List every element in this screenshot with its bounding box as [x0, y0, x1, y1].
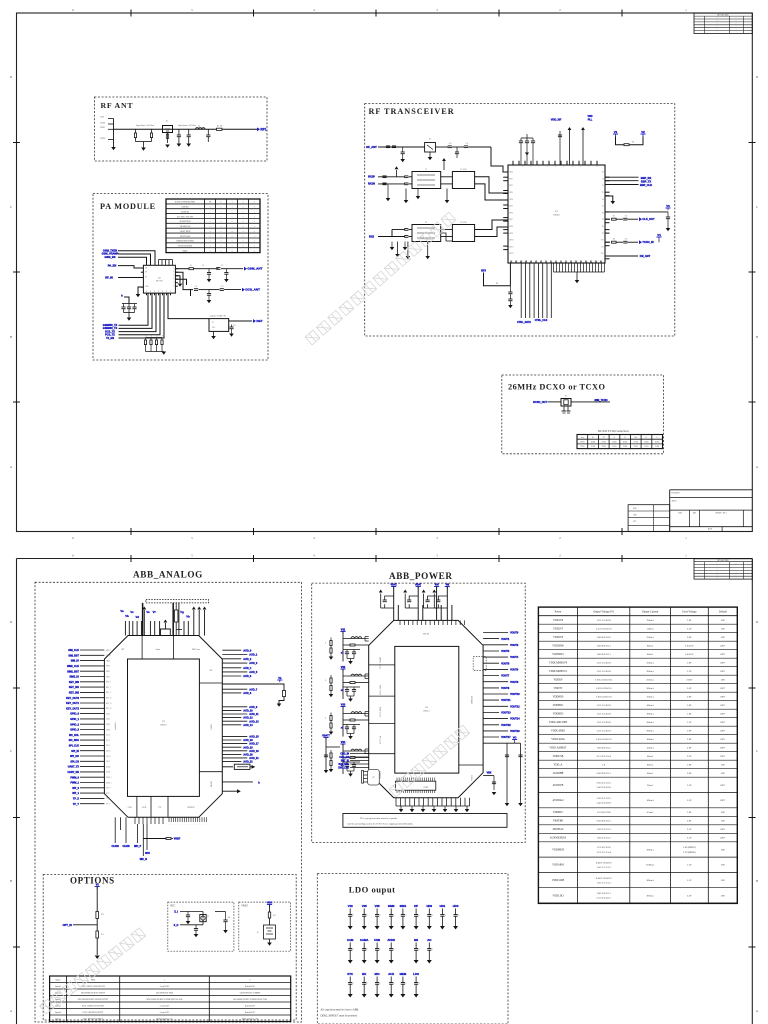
crystal right label [571, 401, 610, 403]
svg-text:AVDDAO: AVDDAO [553, 799, 564, 802]
svg-text:1.8V(DDR1): 1.8V(DDR1) [683, 846, 696, 849]
svg-text:1.2/1.5/1.8/2.8: 1.2/1.5/1.8/2.8 [596, 670, 611, 673]
svg-text:P0: P0 [602, 172, 604, 174]
svg-text:U2: U2 [158, 278, 161, 280]
svg-text:RFI7: RFI7 [510, 219, 513, 221]
svg-text:C1: C1 [613, 437, 615, 439]
svg-text:CTRL_CLK: CTRL_CLK [535, 319, 548, 322]
svg-text:0.65/0.7/0.8/0.9: 0.65/0.7/0.8/0.9 [596, 877, 612, 880]
svg-text:DCDC ADJUST DVS OUTPUT: DCDC ADJUST DVS OUTPUT [82, 1004, 104, 1007]
svg-text:60mA: 60mA [647, 772, 653, 775]
VBAT branch flag [267, 904, 272, 906]
battery connector block [368, 769, 380, 785]
svg-text:~~~: ~~~ [716, 575, 719, 577]
svg-text:TP_Y: TP_Y [73, 803, 79, 806]
svg-text:AUD_16: AUD_16 [243, 739, 253, 742]
svg-text:1.8V: 1.8V [687, 713, 692, 716]
svg-text:AUD_5: AUD_5 [249, 671, 258, 674]
svg-text:VDDMEM: VDDMEM [552, 848, 565, 851]
right row with series parts to connector row1 [605, 218, 610, 220]
svg-text:Vf: Vf [153, 610, 156, 614]
svg-text:AUD_17: AUD_17 [249, 743, 259, 746]
sheet1 watermark [305, 212, 456, 345]
svg-text:GSM_ANT: GSM_ANT [247, 267, 262, 271]
svg-text:CHG_IN: CHG_IN [340, 754, 349, 756]
svg-text:1.9/2.1/2.3/2.5: 1.9/2.1/2.3/2.5 [596, 837, 611, 840]
balun T1 power arrow [443, 161, 445, 170]
svg-text:ON: ON [721, 820, 725, 823]
power table column lines [577, 607, 579, 903]
ABB analog bottom right comb [168, 817, 170, 822]
DCDC group 3 feedback resistor [343, 719, 350, 721]
svg-text:VDDHD1: VDDHD1 [553, 704, 564, 707]
svg-text:VBATT HIGH: VBATT HIGH [180, 230, 191, 233]
transceiver top power arrows [569, 130, 571, 165]
svg-text:~~: ~~ [735, 575, 737, 577]
svg-text:PWM_1: PWM_1 [70, 782, 79, 785]
svg-text:HD1: HD1 [440, 904, 446, 908]
svg-text:I2C_S: I2C_S [106, 735, 110, 737]
svg-text:3.3V: 3.3V [687, 799, 692, 802]
svg-text:SPK: SPK [145, 853, 150, 855]
svg-text:T2: T2 [425, 222, 427, 224]
ABB analog bottom resistor branch [143, 838, 166, 840]
svg-text:AUD_3: AUD_3 [249, 662, 258, 665]
svg-text:INT_0: INT_0 [72, 787, 79, 790]
svg-text:Syna: Syna [156, 649, 160, 651]
svg-text:6: 6 [72, 554, 74, 558]
svg-text:2.8V: 2.8V [687, 747, 692, 750]
svg-text:P11: P11 [601, 246, 604, 248]
antenna feed stubs [108, 118, 114, 120]
svg-text:VBAT: VBAT [415, 584, 422, 587]
DCDC group 2 flag [340, 668, 345, 670]
svg-text:TP_X: TP_X [73, 798, 79, 801]
svg-text:VOUT12: VOUT12 [510, 705, 520, 708]
svg-text:KEY_I: KEY_I [106, 682, 111, 684]
svg-text:UART_RX: UART_RX [67, 771, 79, 774]
svg-text:1: 1 [685, 536, 687, 540]
svg-text:V4: V4 [657, 233, 661, 237]
RTC right cap 32k [215, 911, 226, 913]
svg-text:ON: ON [721, 894, 725, 897]
top small caps near arrows [559, 131, 561, 165]
options divider circuit [96, 887, 98, 956]
svg-text:OFF: OFF [721, 687, 726, 690]
svg-text:Vg: Vg [180, 610, 184, 614]
power input flag 4 [445, 586, 450, 588]
power input flag 3 [434, 586, 439, 588]
svg-text:P10: P10 [601, 240, 604, 242]
svg-text:VRAMP HIGH: VRAMP HIGH [179, 220, 191, 223]
svg-text:2.5/2.75/2.8/3.0: 2.5/2.75/2.8/3.0 [596, 628, 612, 631]
svg-text:KEY_O: KEY_O [106, 703, 112, 705]
RX input wire [378, 146, 425, 148]
svg-text:GSM_BS: GSM_BS [105, 255, 116, 259]
svg-text:Used Voltage: Used Voltage [682, 611, 697, 614]
svg-text:~~: ~~ [735, 26, 737, 28]
svg-text:VDDKP: VDDKP [554, 679, 563, 682]
sheet 1 title block left table [628, 505, 670, 532]
svg-text:250mA: 250mA [646, 619, 654, 622]
svg-text:~~: ~~ [735, 569, 737, 571]
svg-text:5: 5 [191, 554, 193, 558]
svg-text:Output Current: Output Current [642, 611, 659, 614]
svg-text:RFI1: RFI1 [510, 178, 513, 180]
svg-text:VOUT4: VOUT4 [510, 656, 519, 659]
svg-text:OFF: OFF [721, 730, 726, 733]
svg-text:200mA: 200mA [646, 721, 654, 724]
RF cable connector J1 [257, 127, 260, 131]
sheet 2 revision table [694, 559, 752, 579]
svg-text:P8: P8 [602, 226, 604, 228]
svg-text:RF TRANSCEIVER: RF TRANSCEIVER [369, 107, 455, 116]
svg-text:100mA: 100mA [646, 713, 654, 716]
svg-text:Option4: Option4 [55, 1012, 61, 1014]
svg-text:0.65/0.7/0.8/0.9: 0.65/0.7/0.8/0.9 [596, 862, 612, 865]
ABB analog IC core [128, 659, 200, 796]
svg-text:OFF: OFF [721, 738, 726, 741]
svg-text:AVDD: AVDD [387, 938, 395, 942]
svg-text:DCS 1800 / PCS 1900: DCS 1800 / PCS 1900 [177, 216, 193, 218]
svg-text:~~~: ~~~ [716, 29, 719, 31]
shunt cap C2 [178, 129, 180, 135]
svg-text:P1: P1 [602, 178, 604, 180]
svg-text:AUD_19: AUD_19 [249, 750, 259, 753]
svg-text:B1: B1 [257, 932, 259, 934]
svg-text:VDD3V: VDD3V [554, 687, 563, 690]
svg-text:~~: ~~ [735, 572, 737, 574]
DCDC group 3 inductor wire [343, 713, 365, 715]
svg-text:300mA: 300mA [646, 879, 654, 882]
svg-text:1.7/1.8/1.9/2.0: 1.7/1.8/1.9/2.0 [596, 846, 611, 849]
svg-text:L3: L3 [190, 265, 192, 267]
svg-text:SHEET 1 OF 2: SHEET 1 OF 2 [716, 513, 727, 515]
ABB power IC core [395, 646, 459, 773]
svg-text:1.8/2.8/3.0/3.1: 1.8/2.8/3.0/3.1 [596, 645, 611, 648]
svg-text:C: C [353, 915, 354, 917]
svg-text:Assem DCDC: Assem DCDC [160, 1004, 171, 1007]
svg-text:C2: C2 [624, 437, 626, 439]
svg-text:UART_TX: UART_TX [68, 766, 80, 769]
svg-text:4: 4 [313, 8, 315, 12]
svg-text:1.8/3.0V: 1.8/3.0V [685, 645, 694, 648]
PA bypass caps group [122, 303, 137, 305]
svg-text:BB: BB [414, 938, 418, 942]
svg-text:~~~: ~~~ [716, 566, 719, 568]
svg-text:9BTEST: 9BTEST [187, 807, 195, 809]
svg-text:3.3V: 3.3V [687, 755, 692, 758]
svg-text:TX_EN: TX_EN [106, 337, 114, 340]
svg-text:1.2/1.5/1.8/2.8: 1.2/1.5/1.8/2.8 [596, 730, 611, 733]
svg-text:2.8/2.9/3.0/3.1: 2.8/2.9/3.0/3.1 [596, 772, 611, 775]
svg-text:VDDRTC: VDDRTC [553, 811, 564, 814]
svg-text:SPI_CLK: SPI_CLK [69, 745, 80, 748]
right row to power flag [605, 211, 668, 213]
svg-text:OFF: OFF [721, 653, 726, 656]
svg-text:VBAT: VBAT [423, 633, 430, 636]
svg-text:V1: V1 [614, 130, 618, 134]
svg-text:1.8V: 1.8V [687, 704, 692, 707]
svg-text:1.8/1.9/2.0/2.1: 1.8/1.9/2.0/2.1 [596, 892, 611, 895]
svg-text:BBP_CLK: BBP_CLK [640, 183, 652, 187]
svg-text:ON: ON [721, 811, 725, 814]
ABB power VBAT left flag [323, 737, 328, 739]
svg-text:GPIO_: GPIO_ [106, 719, 111, 721]
svg-text:DCS_ANT: DCS_ANT [245, 288, 260, 292]
svg-text:VBATT: VBATT [322, 735, 330, 738]
svg-text:RFI6: RFI6 [510, 212, 513, 214]
svg-text:LTETB: LTETB [210, 781, 212, 788]
svg-text:R11: R11 [101, 934, 104, 936]
right row with series parts to connector row2 [605, 241, 610, 243]
svg-text:SIM2_: SIM2_ [106, 671, 111, 673]
svg-text:C8: C8 [202, 265, 204, 267]
svg-text:BAT_ID: BAT_ID [341, 760, 349, 763]
svg-text:VOUT0: VOUT0 [510, 632, 519, 635]
svg-text:Y2: Y2 [207, 916, 209, 918]
svg-text:DDR2_HSPOUT must be powered: DDR2_HSPOUT must be powered [321, 1015, 358, 1018]
svg-text:60mA: 60mA [647, 755, 653, 758]
PA bottom wires to band labels [119, 293, 149, 325]
svg-text:CLKIN: CLKIN [122, 846, 129, 848]
svg-text:V28: V28 [375, 904, 380, 908]
svg-text:AUD_6: AUD_6 [243, 675, 252, 678]
svg-text:VREF: VREF [174, 838, 181, 841]
svg-text:OFF: OFF [721, 713, 726, 716]
svg-text:2.6/2.8/3.0/3.2: 2.6/2.8/3.0/3.2 [596, 820, 611, 823]
PA IC pin stubs [141, 267, 144, 269]
svg-text:~~: ~~ [735, 32, 737, 34]
svg-text:GPIO_1: GPIO_1 [70, 718, 79, 721]
svg-text:1100mA: 1100mA [646, 864, 655, 867]
svg-text:HI6152: HI6152 [160, 725, 166, 727]
svg-text:VDD1V8: VDD1V8 [553, 619, 564, 622]
svg-text:C9: C9 [221, 265, 223, 267]
svg-text:RTC: RTC [347, 972, 353, 976]
ABB power right bottom cluster [483, 775, 494, 777]
PA output row2 matching [175, 272, 193, 289]
svg-text:VDDCMMB1V8: VDDCMMB1V8 [549, 662, 568, 665]
svg-text:OLD POWER ON KEY SCHEME (BASIC: OLD POWER ON KEY SCHEME (BASIC FOR) [233, 998, 267, 1001]
svg-text:~~: ~~ [735, 20, 737, 22]
svg-text:1.8/2.8/3.0/3.1: 1.8/2.8/3.0/3.1 [596, 653, 611, 656]
ABB analog right arrow row [222, 790, 237, 792]
svg-text:1.2/1.5/1.8/2.8: 1.2/1.5/1.8/2.8 [596, 704, 611, 707]
ABB power note box [343, 814, 507, 828]
svg-text:OFF: OFF [721, 696, 726, 699]
svg-text:VDD_RF: VDD_RF [551, 118, 562, 122]
svg-text:26M_TCXO: 26M_TCXO [594, 399, 607, 402]
svg-text:C32: C32 [625, 239, 628, 241]
svg-text:VDDCORE: VDDCORE [552, 879, 565, 882]
svg-text:250mA: 250mA [646, 679, 654, 682]
svg-text:C11: C11 [195, 286, 198, 288]
svg-text:KEY_I: KEY_I [106, 692, 111, 694]
svg-text:HI6551: HI6551 [423, 711, 429, 713]
svg-text:NEW POWER ON KEY OPTION OUTPUT: NEW POWER ON KEY OPTION OUTPUT [78, 999, 109, 1001]
LDO output block box [317, 874, 508, 1024]
RF TRANSCEIVER block box [365, 104, 675, 336]
svg-text:ON: ON [721, 864, 725, 867]
svg-text:Vd: Vd [135, 615, 139, 619]
svg-text:1.8/3.0V: 1.8/3.0V [685, 653, 694, 656]
svg-text:~~~: ~~~ [716, 23, 719, 25]
svg-text:INT_1: INT_1 [72, 792, 79, 795]
DCDC group 1 feedback resistor [343, 644, 350, 646]
svg-text:VDD2V8: VDD2V8 [553, 636, 564, 639]
svg-text:HUAWEI: HUAWEI [672, 491, 680, 494]
svg-text:150mA: 150mA [646, 747, 654, 750]
svg-text:VOUT7: VOUT7 [501, 675, 510, 678]
svg-text:PWM_1: PWM_1 [106, 782, 112, 784]
DCDC group 1 divider resistors [331, 638, 343, 640]
VBAT sub box [239, 902, 291, 951]
svg-text:KEY_I: KEY_I [106, 687, 111, 689]
svg-text:1.8/2.5/2.85/2.95: 1.8/2.5/2.85/2.95 [595, 679, 612, 682]
transceiver right rows BBP [605, 176, 639, 178]
svg-text:DCDC MEM: DCDC MEM [380, 707, 382, 718]
svg-text:VBK: VBK [487, 773, 492, 775]
svg-text:P9: P9 [602, 233, 604, 235]
svg-text:Option0: Option0 [55, 986, 61, 988]
svg-text:1.2V: 1.2V [687, 670, 692, 673]
svg-text:C: C [330, 756, 331, 758]
svg-text:C: C [394, 915, 395, 917]
ABB power right rows [483, 632, 508, 634]
svg-text:SPI_DO: SPI_DO [70, 755, 79, 758]
svg-text:REV RECORD: REV RECORD [717, 15, 729, 17]
svg-text:MICBIAS: MICBIAS [553, 828, 564, 831]
svg-text:GPIO: GPIO [210, 724, 212, 730]
svg-text:TCXO_IN: TCXO_IN [642, 240, 653, 244]
svg-text:VOUT13: VOUT13 [501, 712, 511, 715]
DCDC group 3 output caps [343, 724, 360, 726]
svg-text:DCDC ARM DVFS OUTPUT: DCDC ARM DVFS OUTPUT [83, 1011, 104, 1014]
svg-text:DCDC ARM: DCDC ARM [379, 685, 382, 695]
RTC crystal Y2 [200, 915, 206, 922]
svg-text:Vc: Vc [130, 610, 134, 614]
svg-text:1.8/2.6/2.8/3.0: 1.8/2.6/2.8/3.0 [596, 636, 611, 639]
ABB analog top fat bus pins [142, 603, 144, 636]
svg-text:VDDHD0: VDDHD0 [553, 696, 564, 699]
svg-text:VDDCAMCORE: VDDCAMCORE [549, 721, 568, 724]
svg-text:SIM_C: SIM_C [106, 650, 111, 652]
svg-text:F2 SAW: F2 SAW [460, 221, 466, 224]
antenna feed bus [113, 119, 115, 144]
svg-text:LDO POWER OF GRID: LDO POWER OF GRID [156, 992, 174, 994]
svg-text:80mA: 80mA [647, 653, 653, 656]
svg-text:C: C [367, 915, 368, 917]
svg-text:ABB_POWER: ABB_POWER [389, 571, 453, 581]
svg-text:C: C [380, 915, 381, 917]
svg-text:SIM_CLK: SIM_CLK [68, 649, 79, 652]
svg-text:AUD_13: AUD_13 [249, 720, 259, 723]
svg-text:SIM1: SIM1 [400, 904, 407, 908]
svg-text:OFF: OFF [721, 704, 726, 707]
PA row2 extra stub grounds [190, 290, 192, 296]
svg-text:~~: ~~ [735, 29, 737, 31]
ABB_POWER block box [312, 583, 526, 842]
svg-text:KEY_OUT0: KEY_OUT0 [66, 697, 80, 700]
svg-text:2.1V: 2.1V [687, 837, 692, 840]
DCDC group 2 feedback resistor [343, 682, 350, 684]
svg-text:SIM0: SIM0 [388, 904, 395, 908]
svg-text:LDO ouput: LDO ouput [349, 885, 396, 895]
svg-text:OFF: OFF [721, 799, 726, 802]
svg-text:~~~: ~~~ [716, 563, 719, 565]
svg-text:KEY_OUT1: KEY_OUT1 [66, 702, 80, 705]
svg-text:ON: ON [721, 679, 725, 682]
svg-text:SPI_DI: SPI_DI [71, 750, 79, 753]
svg-text:OFF: OFF [721, 828, 726, 831]
svg-text:KEY_IN1: KEY_IN1 [69, 686, 80, 689]
svg-text:VS1: VS1 [341, 629, 346, 632]
ABB analog right series resistor rows [222, 766, 233, 768]
svg-text:2.2/2.3/2.4/2.5: 2.2/2.3/2.4/2.5 [596, 897, 611, 900]
svg-text:R12: R12 [273, 915, 276, 917]
svg-text:P5: P5 [602, 206, 604, 208]
svg-text:C: C [353, 949, 354, 951]
svg-text:Y1: Y1 [565, 396, 567, 398]
svg-text:DCDC CMMB: DCDC CMMB [380, 656, 382, 668]
RX1 left rail ground [396, 170, 398, 177]
svg-text:PA MODULE: PA MODULE [100, 202, 156, 211]
balun T1 [412, 172, 441, 189]
svg-text:MEM: MEM [400, 972, 407, 976]
svg-text:VOUT15: VOUT15 [501, 724, 511, 727]
svg-text:OPT_ID: OPT_ID [63, 923, 72, 927]
power input flag 1 [391, 586, 396, 588]
sheet 1 zone ticks left/right [13, 142, 20, 144]
svg-text:ON: ON [721, 772, 725, 775]
svg-text:C12: C12 [221, 286, 224, 288]
svg-text:DCDC DRIVE DVS DIRECT: DCDC DRIVE DVS DIRECT [83, 1018, 104, 1020]
svg-text:1.1V: 1.1V [687, 879, 692, 882]
svg-text:GND2: GND2 [100, 138, 105, 140]
svg-text:MIC_N: MIC_N [140, 859, 147, 861]
svg-text:RX1N: RX1N [368, 182, 375, 186]
svg-text:P4: P4 [602, 199, 604, 201]
svg-text:VBK: VBK [267, 902, 272, 905]
svg-text:AUD_22: AUD_22 [243, 761, 253, 764]
svg-text:C: C [406, 983, 407, 985]
26MHz DCXO block box [502, 375, 664, 454]
svg-text:I2C_SDA: I2C_SDA [69, 739, 80, 742]
svg-text:~~~: ~~~ [716, 569, 719, 571]
svg-text:MIC: MIC [375, 972, 380, 976]
svg-text:ON: ON [721, 764, 725, 767]
svg-text:VM: VM [446, 584, 450, 587]
svg-text:USB: USB [374, 938, 380, 942]
svg-text:xAxTxPA: xAxTxPA [114, 721, 117, 730]
svg-text:OFF: OFF [721, 662, 726, 665]
svg-text:1.8V: 1.8V [687, 764, 692, 767]
svg-text:3.4/3.5/3.6/3.8: 3.4/3.5/3.6/3.8 [596, 786, 611, 789]
svg-text:C: C [394, 949, 395, 951]
DCDC group 4 output caps [343, 761, 360, 763]
svg-text:X_O: X_O [174, 924, 179, 927]
crystal ground legs [563, 406, 565, 411]
svg-text:KEY_O: KEY_O [106, 708, 112, 710]
svg-text:C20: C20 [449, 143, 452, 145]
svg-text:INT_0: INT_0 [106, 788, 110, 790]
svg-text:5: 5 [191, 8, 193, 12]
svg-text:2.85V: 2.85V [686, 679, 692, 682]
svg-text:200mA: 200mA [646, 670, 654, 673]
svg-text:C: C [367, 949, 368, 951]
svg-text:C21: C21 [466, 143, 469, 145]
